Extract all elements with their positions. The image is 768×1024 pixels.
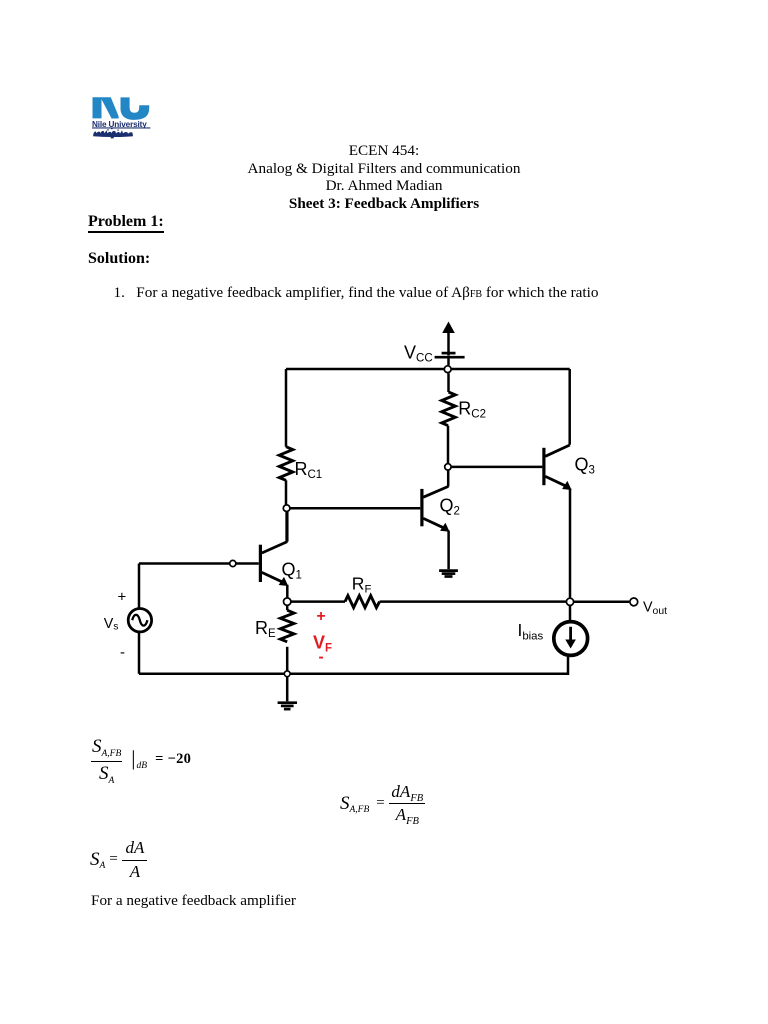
wire RE bottom (286, 647, 289, 671)
svg-text:VCC: VCC (404, 343, 433, 365)
node RE / bottom rail (284, 671, 290, 677)
wire Q3 emitter down (569, 489, 572, 598)
transistor Q3 (544, 445, 570, 486)
wire Ibias top (569, 606, 572, 621)
Solution heading (88, 250, 150, 268)
svg-text:Ibias: Ibias (518, 620, 544, 642)
svg-text:RF: RF (352, 573, 372, 595)
wire RC1 branch (285, 369, 288, 542)
node below RC2 (445, 464, 451, 470)
resistor RC2 (442, 392, 456, 426)
wire VCC branch (447, 331, 450, 392)
svg-text:Vout: Vout (643, 600, 667, 618)
current source Ibias (554, 622, 588, 656)
svg-text:RC1: RC1 (295, 459, 323, 481)
formula 2: S_A,FB = dA_FB / A_FB (340, 782, 425, 825)
ground below RE (278, 703, 297, 709)
transistor Q2 (422, 486, 449, 528)
closing text (91, 892, 296, 910)
node on Q1 base wire (230, 560, 236, 566)
svg-text:-: - (319, 649, 324, 666)
resistor RF (horizontal) (345, 596, 380, 608)
wire Q1 base (139, 562, 259, 565)
svg-text:+: + (317, 608, 326, 625)
wire Q3 collector riser (568, 369, 571, 445)
wire left rail vs to Q1 base (138, 564, 141, 674)
VCC battery short bar (442, 352, 456, 355)
header text (0, 142, 768, 213)
Nile University logo (90, 95, 154, 141)
wire RE top (286, 606, 289, 610)
svg-text:Q3: Q3 (575, 455, 595, 477)
ground below Q2 (439, 571, 458, 577)
wire node to vout (574, 601, 629, 604)
node RF / Q3 emitter (566, 598, 573, 605)
source vs (128, 609, 151, 632)
svg-text:Q2: Q2 (440, 496, 460, 518)
node below RC1 (283, 505, 290, 512)
wire Q2 collector riser (447, 471, 450, 487)
wire Q2 base (290, 507, 420, 510)
formula 1: S_A,FB / S_A |dB = -20 (91, 736, 191, 785)
svg-text:+: + (118, 589, 127, 606)
wire top rail (286, 368, 570, 371)
node Q1 emitter / RE / RF (284, 598, 291, 605)
wire RE ground stub (286, 677, 289, 701)
svg-text:RC2: RC2 (458, 398, 486, 420)
wire bottom rail (139, 657, 568, 674)
svg-text:Vs: Vs (104, 616, 119, 633)
resistor RC1 (279, 447, 293, 481)
svg-text:Q1: Q1 (282, 560, 302, 582)
wire node to Q3 base (451, 466, 542, 469)
wire RF right to node (380, 600, 567, 603)
VCC arrow (442, 322, 455, 334)
wire Q2 emitter to ground (447, 531, 450, 570)
wire RF left (291, 600, 345, 603)
svg-text:-: - (120, 644, 125, 661)
Problem 1 heading (88, 213, 164, 233)
item 1 (114, 284, 599, 302)
VCC battery long bar (435, 356, 465, 359)
resistor RE (280, 610, 294, 642)
formula 3: S_A = dA / A (90, 838, 147, 882)
transistor Q1 (260, 512, 287, 598)
wire RC2 to node (447, 426, 450, 464)
node at VCC rail (444, 366, 451, 373)
terminal vout (630, 598, 638, 606)
svg-text:RE: RE (255, 618, 276, 640)
